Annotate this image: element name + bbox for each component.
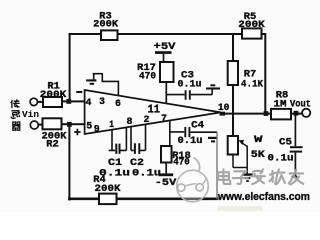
wire bottom rail right of R4: [117, 198, 218, 201]
wire inverting input: [71, 100, 85, 102]
resistor R3: [93, 12, 118, 40]
resistor R8: [271, 90, 311, 119]
svg-text:200K: 200K: [93, 19, 118, 30]
wire output line: [222, 113, 303, 115]
svg-text:6: 6: [115, 98, 121, 110]
svg-text:0.1u: 0.1u: [99, 169, 130, 180]
svg-text:+5V: +5V: [154, 41, 177, 53]
potentiometer wiper arrow: [233, 140, 247, 168]
svg-text:C2: C2: [130, 158, 144, 169]
svg-text:200K: 200K: [95, 184, 121, 195]
svg-text:7: 7: [161, 113, 167, 125]
resistor R7: [228, 61, 263, 90]
svg-text:C1: C1: [108, 158, 122, 169]
footer strip: [218, 206, 262, 211]
svg-text:470: 470: [139, 72, 156, 83]
capacitor C4 (pin 7): [170, 121, 217, 147]
svg-text:Vin: Vin: [22, 109, 39, 120]
svg-text:9: 9: [94, 124, 100, 136]
svg-text:5: 5: [86, 120, 92, 132]
svg-text:0.1u: 0.1u: [268, 154, 294, 165]
wire input terminal 1 stub: [38, 101, 43, 103]
svg-text:470: 470: [173, 158, 190, 169]
svg-text:8: 8: [127, 116, 133, 128]
op-amp plus sign: [74, 129, 80, 135]
sensor label 感: [11, 110, 20, 118]
ground at C4: [208, 138, 217, 142]
svg-text:5K: 5K: [251, 150, 265, 161]
-5V supply terminal: [155, 163, 177, 190]
resistor R18: [161, 146, 191, 169]
resistor R5: [238, 12, 265, 38]
svg-text:C5: C5: [279, 137, 292, 148]
resistor R17: [137, 62, 174, 83]
wire top rail left segment: [70, 33, 101, 35]
svg-text:1: 1: [109, 119, 114, 131]
svg-text:0.1u: 0.1u: [178, 79, 202, 90]
wire bottom rail left of R4: [69, 198, 99, 201]
ground at op-amp pin 3 bracket: [86, 74, 118, 96]
resistor R2: [42, 118, 67, 150]
+5V supply terminal: [154, 41, 177, 62]
op-amp U1 triangle: [85, 90, 221, 134]
wire input terminal 2 stub: [38, 124, 42, 126]
input terminal circle 2: [30, 121, 38, 129]
ground under potentiometer: [242, 168, 252, 182]
capacitor C2 (pins 8-2 bridge): [130, 125, 161, 180]
junction node C5 tap: [294, 111, 299, 116]
svg-text:4.1K: 4.1K: [241, 79, 263, 90]
wire non-inverting input: [72, 123, 85, 125]
svg-text:2: 2: [144, 114, 150, 126]
junction node R5-output: [264, 111, 269, 116]
ground at C3 (pointing up): [206, 85, 220, 94]
wire junction B down left vertical: [68, 126, 70, 200]
junction node A (R1 / R3 / inverting input): [66, 99, 71, 104]
potentiometer W 5K box: [228, 134, 265, 161]
wire R17 bottom to op-amp pin 11: [165, 82, 167, 104]
sensor label 器: [12, 122, 21, 130]
wire R7 bottom to pot top: [232, 85, 234, 136]
capacitor C1 (pins 1-8 bridge): [99, 128, 130, 180]
output terminal circle: [302, 109, 310, 117]
watermark text 电子发烧友: [218, 169, 303, 184]
svg-text:R2: R2: [46, 140, 59, 151]
wire R5 right corner down to output node: [262, 34, 266, 112]
sensor label 传: [11, 99, 20, 108]
resistor R4: [93, 175, 120, 204]
capacitor C5: [268, 115, 303, 177]
svg-text:-5V: -5V: [155, 177, 177, 189]
wire C4 down to bottom rail: [216, 132, 218, 199]
svg-text:200K: 200K: [238, 20, 265, 31]
capacitor C3: [166, 70, 212, 99]
junction node B (R2 / R4 / non-inverting input): [67, 122, 72, 127]
input terminal circle 1: [30, 98, 37, 105]
svg-text:1M: 1M: [274, 99, 287, 110]
svg-text:www.elecfans.com: www.elecfans.com: [217, 191, 310, 203]
wire R7 branch vertical: [232, 34, 234, 61]
svg-text:0.1u: 0.1u: [178, 136, 203, 147]
resistor R1: [40, 82, 67, 107]
watermark logo circle: [177, 158, 209, 202]
wire left feedback vertical: [69, 34, 71, 100]
svg-text:3: 3: [99, 96, 105, 108]
op-amp minus sign: [76, 91, 82, 93]
svg-text:C4: C4: [191, 121, 204, 132]
wire R18 top stub: [169, 132, 171, 146]
svg-text:10: 10: [218, 102, 230, 114]
wire R1 to junction: [62, 100, 67, 102]
wire R2 to junction: [62, 123, 69, 125]
wire top rail middle segment: [118, 33, 243, 35]
svg-text:200K: 200K: [40, 90, 67, 101]
svg-text:W: W: [254, 134, 263, 146]
svg-text:4: 4: [86, 97, 92, 109]
junction node 10 (op-amp output): [220, 112, 225, 116]
